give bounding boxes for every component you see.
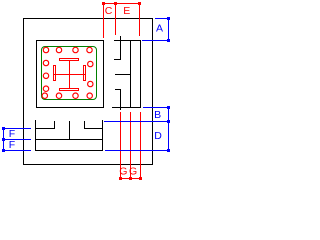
- pin pad circle bottom row 1: [42, 93, 47, 98]
- dimension D square bottom: [167, 149, 170, 152]
- svg-text:F: F: [9, 139, 15, 151]
- dimension F vertical: [3, 128, 4, 151]
- dimension A square bottom: [167, 39, 170, 42]
- svg-text:B: B: [154, 109, 161, 121]
- dimension F extension 2: [3, 139, 31, 140]
- dimension C/E square 2: [114, 2, 117, 5]
- side view internal vertical: [130, 40, 131, 108]
- dimension B/D shared extension: [104, 121, 169, 122]
- side view lower hook horizontal: [115, 89, 121, 90]
- dimension A top extension: [155, 18, 168, 19]
- center cross top cap: [59, 58, 79, 59]
- dimension G extension line 3: [140, 112, 141, 178]
- pin pad circle left col 4: [43, 86, 48, 91]
- front view pin 2 (center, long): [69, 121, 70, 140]
- dimension G square 2: [129, 177, 132, 180]
- pin pad circle right col 2: [88, 61, 93, 66]
- dimension E extension line 3: [139, 3, 140, 36]
- svg-text:G: G: [119, 166, 127, 178]
- dimension C extension line 1: [103, 3, 104, 38]
- dimension B/D square middle: [167, 120, 170, 123]
- pin pad circle top row 4: [87, 47, 92, 52]
- side view top bar: [114, 40, 141, 41]
- pin pad circle left col 2: [43, 60, 48, 65]
- front view bottom line: [35, 150, 103, 151]
- dimension C square 1: [102, 2, 105, 5]
- dimension G square 3: [139, 177, 142, 180]
- center cross horizontal line: [54, 74, 86, 75]
- dimension F extension 1: [3, 128, 31, 129]
- dimension E square 3: [138, 2, 141, 5]
- side view center pin line: [115, 74, 131, 75]
- pin pad circle left col 3: [43, 73, 48, 78]
- dimension C/E top line: [102, 3, 140, 4]
- side view hook vertical: [120, 36, 121, 60]
- pin pad circle top row 3: [73, 47, 78, 52]
- svg-text:A: A: [156, 23, 163, 35]
- pin pad circle bottom row 4: [87, 93, 92, 98]
- dimension F extension 3: [3, 150, 31, 151]
- dimension G extension line 2: [130, 112, 131, 178]
- front view right rim: [102, 120, 103, 151]
- center cross left cap: [53, 65, 54, 81]
- svg-text:D: D: [154, 130, 162, 142]
- dimension A bottom extension: [142, 40, 168, 41]
- svg-text:E: E: [123, 5, 130, 17]
- pin pad circle bottom row 3: [73, 93, 78, 98]
- side view hook horizontal: [114, 59, 121, 60]
- pin pad circle top row 1: [43, 47, 48, 52]
- pin pad circle top row 2: [56, 47, 61, 52]
- dimension G bottom line: [120, 178, 141, 179]
- front view top edge left segment: [35, 128, 55, 129]
- svg-text:G: G: [129, 166, 137, 178]
- outer body outline (package boundary box): [23, 18, 153, 19]
- dimension F square 3: [2, 149, 5, 152]
- dimension D bottom extension: [105, 150, 169, 151]
- front view pin 3: [84, 121, 85, 129]
- svg-text:C: C: [105, 5, 113, 17]
- dimension F square 1: [2, 127, 5, 130]
- dimension B/D vertical: [168, 107, 169, 151]
- dimension G square 1: [119, 177, 122, 180]
- front view top edge right segment: [84, 128, 103, 129]
- side view bottom line: [112, 107, 141, 108]
- side view outer vertical: [140, 40, 141, 108]
- front view pin 1: [54, 121, 55, 129]
- pin pad circle bottom row 2: [56, 93, 61, 98]
- center cross vertical line: [69, 60, 70, 89]
- front view internal line: [35, 139, 103, 140]
- dimension A square top: [167, 17, 170, 20]
- dimension G extension line 1: [120, 112, 121, 178]
- dimension C/E extension line 2: [115, 3, 116, 35]
- dimension B square top: [167, 106, 170, 109]
- center cross right cap: [83, 65, 84, 81]
- pin pad circle right col 3: [88, 81, 93, 86]
- dimension B top extension: [143, 107, 169, 108]
- side view lower hook vertical: [120, 89, 121, 110]
- front view left rim: [35, 120, 36, 151]
- pad area outline (green rounded square): [42, 47, 97, 100]
- dimension A vertical: [168, 18, 169, 41]
- center cross bottom cap: [59, 88, 79, 89]
- dimension F square 2: [2, 138, 5, 141]
- top view body square: [36, 40, 104, 41]
